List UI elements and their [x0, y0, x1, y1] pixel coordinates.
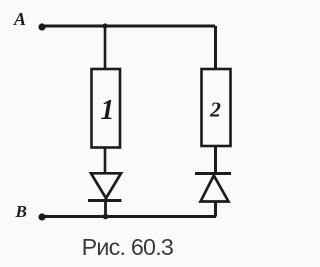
svg-text:1: 1	[100, 95, 114, 126]
svg-text:A: A	[13, 9, 26, 29]
wire resistor 2 to diode 2	[214, 146, 217, 172]
diode VD1 (cathode down)	[88, 173, 122, 200]
junction bottom at branch 1	[103, 214, 109, 220]
svg-text:Рис. 60.3: Рис. 60.3	[82, 234, 173, 260]
node A	[13, 9, 46, 31]
diode VD2 (cathode up)	[195, 174, 231, 202]
wire bottom horizontal B to right corner	[42, 215, 216, 218]
node B	[15, 202, 46, 221]
resistor 1	[92, 69, 121, 148]
wire diode 1 to bottom wire	[104, 202, 107, 217]
svg-text:2: 2	[209, 98, 221, 122]
wire top horizontal A to right corner	[42, 25, 215, 28]
junction top at branch 1	[102, 23, 107, 28]
wire right vertical from top corner to resistor 2	[214, 26, 217, 69]
wire vertical down to resistor 1	[104, 26, 107, 69]
wire diode 2 to bottom corner	[214, 202, 217, 217]
svg-text:B: B	[15, 202, 27, 221]
wire resistor 1 to diode 1	[104, 148, 107, 174]
resistor 2	[202, 69, 231, 146]
